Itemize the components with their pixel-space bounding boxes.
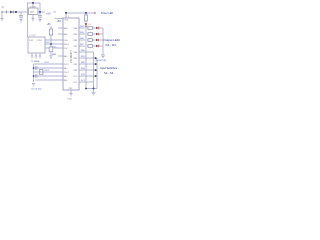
pin stub RA0 xyxy=(58,27,63,29)
ground xyxy=(31,56,33,58)
ground xyxy=(32,84,35,87)
svg-text:ICSP: ICSP xyxy=(29,40,34,42)
svg-text:D1 - D4: D1 - D4 xyxy=(106,43,117,47)
wire VDD drop xyxy=(65,13,67,18)
pin stub RB0 xyxy=(79,51,94,53)
svg-text:RA3: RA3 xyxy=(64,75,68,78)
svg-text:RC1: RC1 xyxy=(74,82,78,84)
wire MCLR xyxy=(45,43,63,45)
svg-text:C5 C6 22p: C5 C6 22p xyxy=(31,89,42,91)
wire xyxy=(87,27,96,29)
capacitor C3 xyxy=(36,66,38,69)
svg-text:OSC2: OSC2 xyxy=(64,72,69,74)
resistor R5 xyxy=(85,13,88,21)
wire xyxy=(1,13,3,19)
wire RA5 xyxy=(36,79,64,81)
svg-text:RB0: RB0 xyxy=(81,50,85,52)
pin stub RB6 xyxy=(79,39,85,41)
svg-text:Output LEDs: Output LEDs xyxy=(103,38,120,42)
node junction xyxy=(15,11,17,13)
pin stub RB1 xyxy=(79,57,94,59)
svg-text:RB7: RB7 xyxy=(74,46,78,48)
svg-text:+5V: +5V xyxy=(46,12,51,16)
wire xyxy=(87,39,96,41)
svg-text:RA0: RA0 xyxy=(64,27,68,30)
svg-text:OSC1: OSC1 xyxy=(44,62,49,64)
svg-text:9V: 9V xyxy=(2,7,5,9)
node junction power led xyxy=(85,12,87,14)
IC U1 body xyxy=(63,18,79,90)
node +5V port 3 xyxy=(94,12,96,14)
switch S3 xyxy=(95,69,97,71)
svg-text:PIC16F877: PIC16F877 xyxy=(69,49,73,63)
wire xyxy=(50,35,52,47)
svg-text:OSC1: OSC1 xyxy=(64,64,69,66)
wire xyxy=(50,52,52,56)
pin stub icsp gnd b xyxy=(35,53,37,56)
node junction xyxy=(39,11,41,13)
svg-text:+5V: +5V xyxy=(57,20,62,23)
pin stub RC1 xyxy=(79,81,94,83)
node junction xyxy=(85,88,87,90)
diode D4 led xyxy=(96,45,103,48)
resistor R1 xyxy=(49,29,52,35)
svg-text:D5: D5 xyxy=(89,24,91,26)
svg-text:VDD: VDD xyxy=(64,19,69,21)
pin stub RB4 xyxy=(79,27,85,29)
wire PGD xyxy=(45,39,63,41)
wire led collect xyxy=(102,28,104,55)
svg-text:RB2: RB2 xyxy=(81,62,85,64)
wire xyxy=(32,3,34,8)
pin stub RB3 xyxy=(79,69,94,71)
node J1 input terminal xyxy=(1,11,3,13)
node junction xyxy=(93,88,95,90)
node junction xyxy=(65,12,67,14)
resistor R6 xyxy=(88,27,92,30)
svg-text:+5V: +5V xyxy=(47,23,52,26)
resistor R7 xyxy=(88,33,92,36)
wire xyxy=(93,89,95,93)
node junction xyxy=(33,67,35,69)
wire switch bus xyxy=(93,52,95,89)
ground xyxy=(39,56,41,58)
pin stub RA4 xyxy=(58,55,63,57)
wire xyxy=(32,15,34,19)
svg-text:RC0: RC0 xyxy=(81,74,85,76)
pin stub icsp gnd a xyxy=(31,53,33,56)
svg-text:RA4: RA4 xyxy=(64,55,68,58)
wire PGC xyxy=(45,47,63,49)
capacitor C1 xyxy=(19,12,23,20)
svg-text:RB2: RB2 xyxy=(74,64,78,66)
svg-text:MCLR: MCLR xyxy=(64,44,70,46)
wire RA3 xyxy=(34,75,64,77)
svg-text:RA2: RA2 xyxy=(64,67,68,70)
wire bypass over regulator xyxy=(28,3,41,12)
wire OSC1 xyxy=(34,63,64,65)
pin stub RA1 xyxy=(58,33,63,35)
wire OSC2 xyxy=(34,71,64,73)
wire mclr pullup top xyxy=(50,26,52,29)
wire xyxy=(13,11,27,13)
capacitor C2 xyxy=(38,12,42,20)
ground xyxy=(20,20,23,23)
node junction xyxy=(32,2,34,4)
diode D3 led xyxy=(96,39,103,42)
svg-text:PGD: PGD xyxy=(64,40,69,42)
diode D5 power led xyxy=(85,21,88,26)
svg-text:RB6: RB6 xyxy=(80,38,84,40)
pin stub RB2 xyxy=(79,63,94,65)
node junction xyxy=(33,75,35,77)
ground xyxy=(35,56,37,58)
svg-text:RB6: RB6 xyxy=(74,40,78,42)
switch S6 reset xyxy=(49,47,53,52)
ground xyxy=(1,19,4,22)
svg-text:RA1: RA1 xyxy=(64,33,68,36)
svg-text:CON2: CON2 xyxy=(30,35,37,37)
wire ground bus from led xyxy=(85,26,87,88)
svg-text:RB3: RB3 xyxy=(81,68,85,70)
ground xyxy=(39,20,42,23)
svg-text:RB7: RB7 xyxy=(80,44,84,46)
svg-text:Power LED: Power LED xyxy=(101,12,113,15)
ground xyxy=(32,19,35,22)
svg-text:S1 - S4: S1 - S4 xyxy=(104,71,114,75)
wire xyxy=(87,45,96,47)
svg-text:GND: GND xyxy=(67,99,72,101)
wire IC vss stub xyxy=(70,90,72,94)
svg-text:Input Switches: Input Switches xyxy=(100,66,118,70)
switch S4 xyxy=(95,75,97,77)
svg-text:RB5: RB5 xyxy=(74,34,78,36)
wire xyxy=(38,11,45,13)
diode D2 led xyxy=(96,33,103,36)
svg-text:PGC: PGC xyxy=(64,48,69,50)
pin stub RC0 xyxy=(79,75,94,77)
svg-text:OSC2: OSC2 xyxy=(44,70,49,72)
pin stub RB7 xyxy=(79,45,85,47)
wire RA2 xyxy=(34,67,64,69)
ground xyxy=(70,94,73,97)
wire +5V rail xyxy=(66,12,95,14)
wire osc bus xyxy=(33,64,35,82)
resistor R9 xyxy=(88,45,92,48)
wire xyxy=(87,33,96,35)
switch S1 xyxy=(95,57,97,59)
capacitor C4 xyxy=(36,74,38,77)
switch S5 xyxy=(6,11,8,14)
regulator U2 7805 xyxy=(29,8,39,15)
svg-text:RA5: RA5 xyxy=(64,79,68,82)
ground xyxy=(101,55,105,58)
svg-text:RC1: RC1 xyxy=(81,80,85,82)
svg-text:RB1: RB1 xyxy=(81,56,85,58)
svg-text:RB4: RB4 xyxy=(74,28,78,30)
crystal Y1 xyxy=(40,70,43,75)
wire ground collect xyxy=(86,88,97,90)
pin stub icsp gnd c xyxy=(39,53,41,56)
svg-text:RC0: RC0 xyxy=(74,76,78,78)
connector J2 ICSP box xyxy=(28,37,45,53)
wire switch bus 2 xyxy=(96,58,98,89)
svg-text:RB0: RB0 xyxy=(74,52,78,54)
resistor R8 xyxy=(88,39,92,42)
svg-text:RB4: RB4 xyxy=(80,26,84,28)
wire xyxy=(3,11,10,13)
svg-text:RB5: RB5 xyxy=(80,32,84,34)
switch S2 xyxy=(95,63,97,65)
svg-text:LM7805: LM7805 xyxy=(29,6,37,8)
wire ICSP feed xyxy=(27,12,29,37)
svg-text:RB3: RB3 xyxy=(74,70,78,72)
pin stub RB5 xyxy=(79,33,85,35)
svg-text:RB1: RB1 xyxy=(74,58,78,60)
wire vdd left feed xyxy=(55,18,64,20)
ground xyxy=(50,56,53,59)
ground xyxy=(92,92,96,95)
svg-text:Y1 4MHz: Y1 4MHz xyxy=(31,61,40,63)
svg-text:CON1: CON1 xyxy=(37,40,42,42)
diode D1 led xyxy=(96,27,103,30)
diode D6 xyxy=(10,11,13,14)
svg-text:7805: 7805 xyxy=(30,12,36,14)
node port tick xyxy=(53,11,56,13)
node junction mclr xyxy=(50,43,52,45)
